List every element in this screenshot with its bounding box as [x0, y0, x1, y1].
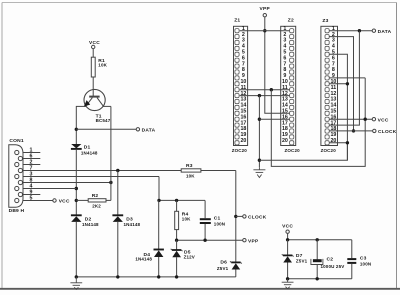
wire Z3 pin9 to VCC vertical	[329, 77, 365, 79]
wire GND riser	[258, 96, 260, 168]
svg-text:CON1: CON1	[9, 138, 23, 144]
svg-text:D6: D6	[220, 260, 227, 266]
socket Z1	[232, 18, 248, 153]
wire pin11 row Z1-Z2 (VCC)	[240, 89, 290, 91]
svg-text:VCC: VCC	[378, 117, 389, 123]
socket Z2	[281, 18, 300, 153]
node CLOCK junction right	[352, 129, 355, 132]
svg-text:R2: R2	[92, 193, 99, 199]
diode D6 (zener)	[217, 260, 242, 271]
capacitor C3	[347, 240, 371, 279]
resistor R1	[91, 57, 107, 77]
wire R1 to T1 base	[92, 77, 94, 96]
wire pin3 net: corner down and TxD node line	[159, 177, 205, 201]
connector CON1 DB9	[9, 138, 33, 214]
svg-text:Z3: Z3	[322, 18, 328, 24]
wire pin4 line	[23, 188, 76, 190]
node DATA (right terminal)	[372, 29, 391, 35]
wire bottom bus (right section)	[288, 278, 352, 280]
wire D4 to ground bus	[158, 257, 160, 277]
wire VPP row	[177, 239, 243, 241]
node bus junction D4	[157, 275, 160, 278]
wire D2 to ground bus	[75, 222, 77, 277]
node GND under-socket junction	[258, 159, 261, 162]
wire Z3 pin1 to DATA	[329, 30, 372, 32]
wire ground bus (left section)	[76, 276, 236, 278]
wire D7 lead	[287, 240, 289, 256]
wire top bus (VCC row)	[288, 239, 352, 241]
node bus D7 junction	[286, 277, 289, 280]
svg-text:1N4148: 1N4148	[135, 257, 152, 262]
diode D2	[71, 215, 99, 227]
wire D7 to bottom bus	[287, 263, 289, 279]
node VCC (right terminal)	[372, 117, 389, 123]
wire Z3 pin20 stub	[329, 142, 347, 144]
node VCC riser junction	[270, 88, 273, 91]
node VPP (left terminal)	[243, 238, 259, 244]
capacitor C2 (electrolytic)	[311, 240, 344, 279]
wire D1 to D2 rail	[75, 150, 77, 215]
socket Z3	[321, 18, 338, 153]
node CLOCK junction	[234, 215, 237, 218]
svg-text:Z5V1: Z5V1	[296, 259, 308, 264]
wire pin1 row Z1-Z2	[240, 30, 290, 32]
svg-text:Z1: Z1	[234, 18, 240, 24]
wire D5 to ground bus	[176, 257, 178, 277]
node TxD junction	[157, 199, 160, 202]
node bus C2 junction	[316, 277, 319, 280]
svg-text:10K: 10K	[186, 173, 195, 178]
wire CLOCK riser (R3 down to D6)	[235, 171, 237, 263]
svg-text:2K2: 2K2	[92, 203, 101, 208]
wire VPP vertical	[265, 17, 290, 113]
wire pin7 line to R3	[23, 170, 181, 172]
svg-text:1N4148: 1N4148	[82, 222, 99, 227]
node bus junction D5	[175, 275, 178, 278]
svg-text:CLOCK: CLOCK	[378, 129, 397, 135]
node C2 top junction	[316, 238, 319, 241]
svg-text:CLOCK: CLOCK	[248, 215, 267, 221]
node GND pin16 junction	[258, 118, 261, 121]
wire Z3 pin16 row to VCC	[329, 118, 372, 120]
wire GND under-socket line to Z3	[259, 143, 347, 160]
resistor R3	[181, 163, 236, 178]
wire TxD node down to D4	[158, 200, 160, 249]
wire D3 to ground bus	[117, 222, 119, 277]
wire pin9 stub	[23, 194, 40, 196]
wire Z3 pin2 to CLOCK vertical	[329, 37, 353, 131]
svg-text:VPP: VPP	[260, 6, 271, 12]
transistor T1	[76, 89, 111, 123]
ground GND1	[70, 277, 82, 290]
svg-text:Z12V: Z12V	[184, 255, 195, 260]
node CLOCK (right terminal)	[373, 129, 397, 135]
wire pin2 stub	[23, 164, 40, 166]
node VPP pin1 junction	[263, 29, 266, 32]
wire Z3 pin5 to GND vertical	[329, 54, 347, 160]
svg-text:1000U 25V: 1000U 25V	[321, 264, 345, 269]
node VPP (top terminal)	[260, 6, 271, 17]
node bus junction D2	[75, 275, 78, 278]
node VCC (mid left terminal)	[53, 199, 70, 205]
resistor R2	[76, 193, 111, 208]
svg-text:1N4148: 1N4148	[124, 222, 141, 227]
wire emitter rail (T1 emitter down to D1)	[75, 106, 77, 144]
wire VCC to R1	[92, 49, 94, 57]
node VCC (bottom right terminal)	[282, 223, 293, 239]
svg-text:Z5V1: Z5V1	[217, 266, 229, 271]
diode D4	[135, 250, 164, 262]
node D7 top junction	[286, 238, 289, 241]
node R2 left junction	[75, 199, 78, 202]
diode D1	[71, 144, 98, 156]
svg-text:20: 20	[282, 138, 288, 144]
diode D3	[112, 215, 140, 227]
wire pin8 line	[23, 182, 111, 184]
wire pin1 stub	[23, 152, 40, 154]
node pin8 junction on collector rail	[109, 181, 112, 184]
wire pin12 row Z1-Z2 (GND)	[240, 95, 290, 97]
svg-text:ZOC20: ZOC20	[232, 148, 248, 153]
wire collector rail (T1 collector down to R2)	[110, 106, 112, 200]
svg-text:100N: 100N	[360, 261, 371, 266]
node pin4 junction	[75, 187, 78, 190]
diode D7 (zener)	[282, 253, 308, 264]
svg-text:VCC: VCC	[59, 199, 70, 205]
wire VCC riser (Z1/Z2 channel to under-socket)	[271, 78, 365, 166]
svg-text:20: 20	[240, 138, 246, 144]
svg-text:R3: R3	[186, 163, 193, 169]
svg-text:VCC: VCC	[89, 40, 100, 46]
wire pin5 line to VCC	[23, 200, 53, 202]
svg-text:BC547: BC547	[96, 118, 111, 123]
diode D5 (zener)	[171, 240, 195, 260]
svg-text:VCC: VCC	[282, 223, 293, 229]
svg-text:ZOC20: ZOC20	[285, 148, 301, 153]
wire D3 riser	[117, 171, 119, 216]
wire pin6 stub	[23, 158, 40, 160]
svg-text:1N4148: 1N4148	[81, 151, 98, 156]
svg-text:DB9 H: DB9 H	[9, 208, 25, 214]
node GND pin10 junction	[346, 82, 349, 85]
node VCC (top left terminal)	[89, 40, 100, 57]
node GND pin20 junction	[346, 141, 349, 144]
svg-text:DATA: DATA	[142, 127, 156, 133]
node CLOCK (left terminal)	[243, 215, 267, 221]
node bus junction D3	[116, 275, 119, 278]
svg-text:10K: 10K	[98, 62, 107, 67]
wire D6 to ground bus corner	[235, 270, 237, 277]
svg-text:C2: C2	[327, 257, 334, 263]
resistor R4	[175, 200, 191, 240]
wire CLOCK terminal lead	[236, 215, 243, 217]
wire Z3 pin18 row to CLOCK	[329, 130, 372, 132]
capacitor C1	[200, 200, 225, 240]
svg-text:Z2: Z2	[288, 18, 294, 24]
wire DATA line	[76, 128, 136, 130]
wire pin16 row to Z2	[259, 118, 289, 120]
svg-text:VPP: VPP	[248, 238, 259, 244]
svg-text:DATA: DATA	[378, 29, 392, 35]
ground GND2	[253, 167, 265, 177]
node DATA junction on emitter rail	[75, 128, 78, 131]
node R4 top junction	[175, 199, 178, 202]
node R4/D5 junction	[175, 239, 178, 242]
wire Z3 pin17 stub	[329, 124, 336, 126]
node D3 junction on pin7 line	[116, 169, 119, 172]
wire Z3 pin10 stub	[329, 83, 347, 85]
wire DATA vertical to pin17	[336, 31, 359, 125]
ground GND3	[282, 279, 294, 289]
node VCC pin16 junction	[364, 118, 367, 121]
svg-text:ZOC20: ZOC20	[321, 148, 337, 153]
svg-text:100N: 100N	[214, 221, 225, 226]
node C1 bottom junction	[203, 239, 206, 242]
node DATA (left terminal)	[136, 127, 155, 133]
node GND riser junction	[258, 94, 261, 97]
wire pin3 line	[23, 176, 159, 178]
node DATA junction	[358, 29, 361, 32]
svg-text:10K: 10K	[182, 217, 191, 222]
